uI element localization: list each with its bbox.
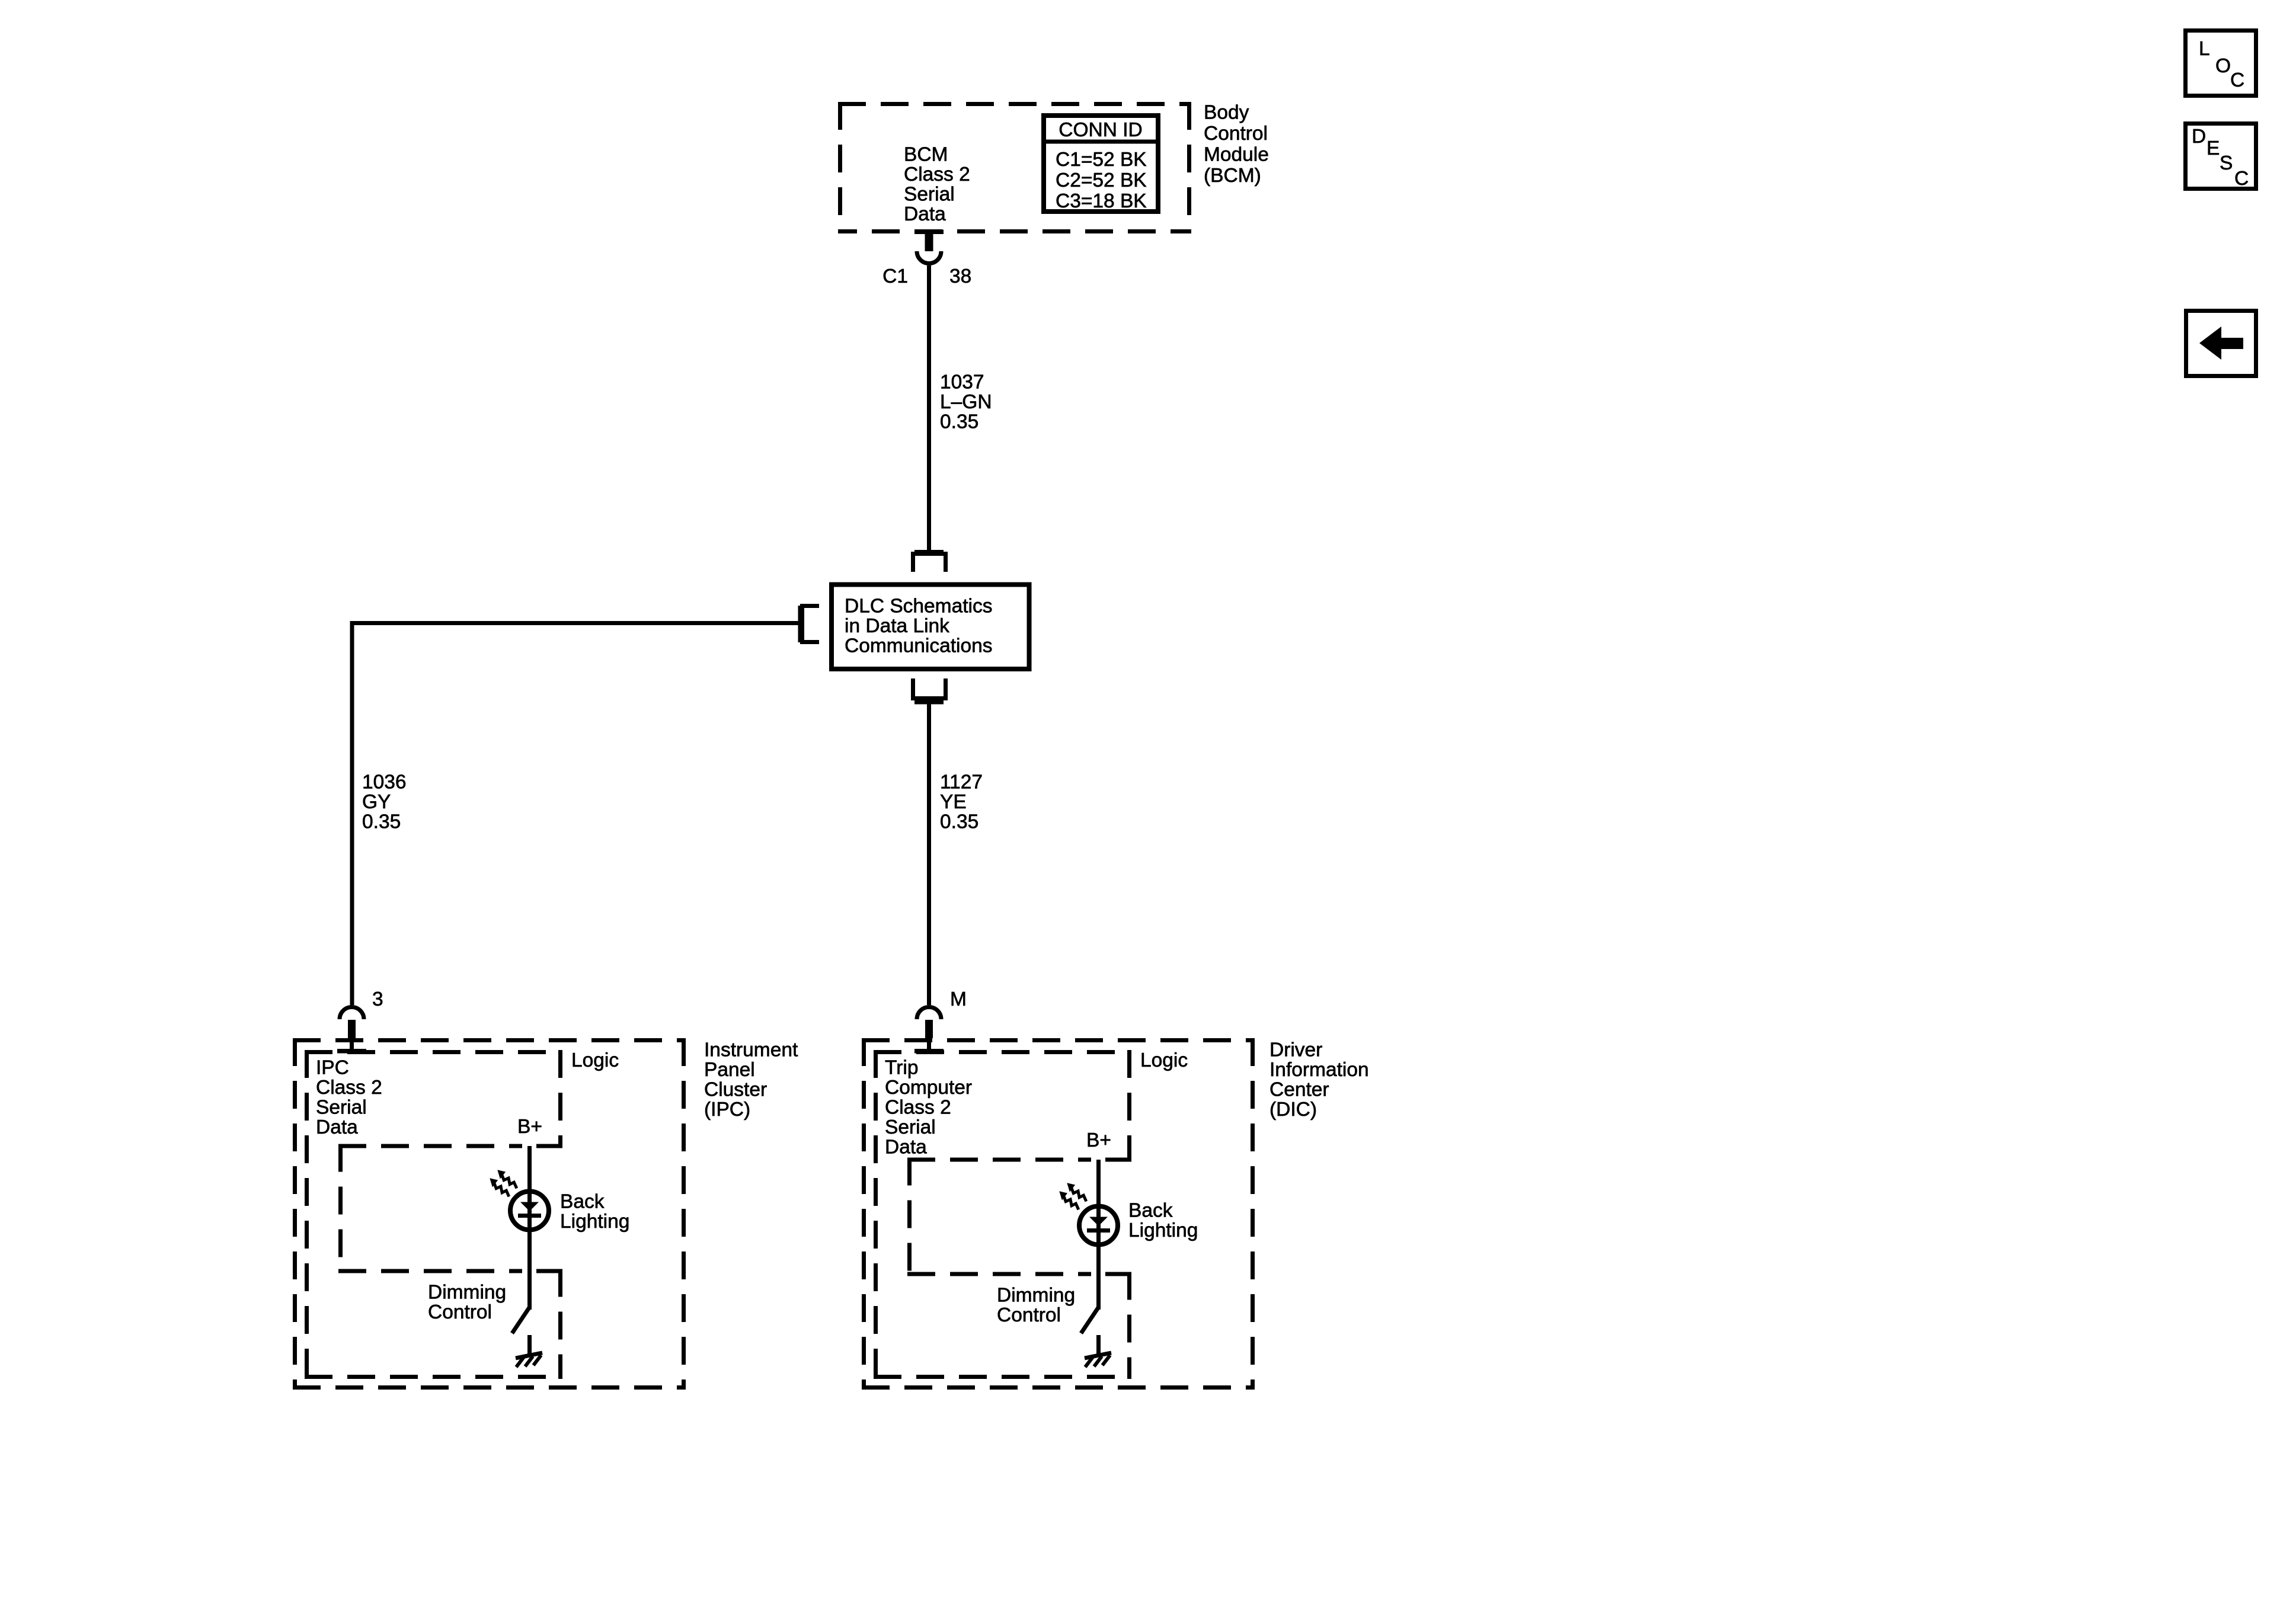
svg-text:Dimming: Dimming (428, 1281, 506, 1303)
wire label 1036 GY 0.35 (362, 771, 407, 833)
svg-text:Dimming: Dimming (997, 1284, 1075, 1306)
svg-text:Information: Information (1269, 1059, 1369, 1081)
back arrow icon box (2186, 311, 2256, 376)
svg-text:Cluster: Cluster (704, 1078, 767, 1100)
svg-text:Serial: Serial (885, 1116, 936, 1138)
svg-text:Data: Data (904, 203, 946, 225)
wire 1037 BCM to DLC (927, 265, 931, 552)
svg-text:Module: Module (1204, 143, 1269, 165)
svg-text:Communications: Communications (845, 635, 992, 657)
body control module BCM dashed box (838, 102, 1191, 233)
svg-text:Serial: Serial (316, 1096, 367, 1118)
svg-text:Logic: Logic (571, 1049, 619, 1071)
svg-text:Lighting: Lighting (1128, 1219, 1198, 1241)
svg-text:GY: GY (362, 791, 391, 813)
Dimming Control label IPC (428, 1281, 506, 1323)
svg-text:0.35: 0.35 (940, 811, 978, 833)
svg-text:(BCM): (BCM) (1204, 165, 1261, 187)
Body Control Module (BCM) label (1204, 101, 1269, 186)
DLC top off-page bracket (913, 550, 946, 572)
DLC left off-page bracket (798, 606, 820, 642)
svg-text:B+: B+ (1086, 1129, 1111, 1151)
svg-text:0.35: 0.35 (362, 811, 401, 833)
svg-text:Control: Control (1204, 123, 1268, 145)
svg-text:C3=18 BK: C3=18 BK (1056, 190, 1147, 212)
svg-text:D: D (2192, 126, 2206, 148)
IPC Class 2 Serial Data label (316, 1057, 382, 1138)
DIC inner logic dashed boundary (874, 1050, 1131, 1379)
svg-text:Control: Control (997, 1304, 1061, 1326)
svg-text:E: E (2207, 137, 2220, 159)
dimming switch DIC (1081, 1307, 1099, 1333)
svg-text:1037: 1037 (940, 371, 984, 393)
svg-text:DLC Schematics: DLC Schematics (845, 595, 992, 617)
svg-text:B+: B+ (517, 1116, 542, 1138)
svg-text:38: 38 (949, 265, 971, 287)
svg-text:C: C (2230, 69, 2244, 91)
Trip Computer Class 2 Serial Data label (885, 1057, 972, 1158)
svg-text:Instrument: Instrument (704, 1039, 798, 1061)
svg-text:Class 2: Class 2 (316, 1077, 382, 1099)
svg-text:C: C (2234, 168, 2249, 190)
wire label 1127 YE 0.35 (940, 771, 983, 833)
svg-text:Logic: Logic (1140, 1049, 1188, 1071)
svg-text:YE: YE (940, 791, 967, 813)
svg-text:L: L (2199, 38, 2210, 60)
ground DIC (1085, 1335, 1111, 1367)
svg-text:1036: 1036 (362, 771, 407, 793)
svg-text:O: O (2215, 55, 2231, 77)
svg-text:C1: C1 (882, 265, 908, 287)
svg-text:Serial: Serial (904, 183, 955, 205)
svg-text:1127: 1127 (940, 771, 983, 793)
svg-text:3: 3 (372, 988, 383, 1010)
svg-text:L–GN: L–GN (940, 391, 992, 413)
DLC bottom off-page bracket (913, 678, 946, 705)
instrument panel cluster IPC outer dashed box (293, 1038, 686, 1390)
LED light arrows DIC (1056, 1180, 1089, 1213)
svg-text:BCM: BCM (904, 143, 948, 165)
svg-text:Back: Back (560, 1190, 605, 1212)
svg-text:Center: Center (1269, 1078, 1329, 1100)
svg-text:Computer: Computer (885, 1077, 972, 1099)
wire label 1037 L-GN 0.35 (940, 371, 992, 433)
B+ wire DIC (1096, 1160, 1101, 1310)
Driver Information Center (DIC) label (1269, 1039, 1369, 1121)
wire from DLC left to IPC (352, 623, 798, 1006)
Back Lighting label IPC (560, 1190, 629, 1233)
svg-text:in Data Link: in Data Link (845, 615, 949, 637)
DESC icon box (2186, 124, 2256, 190)
back lighting LED DIC (1079, 1206, 1118, 1245)
IPC inner logic dashed boundary (305, 1050, 562, 1379)
LOC icon box (2186, 31, 2256, 96)
svg-text:M: M (950, 988, 967, 1010)
Instrument Panel Cluster (IPC) label (704, 1039, 798, 1121)
svg-text:Trip: Trip (885, 1057, 918, 1078)
DLC Schematics box (832, 585, 1029, 670)
CONN ID table (1041, 116, 1160, 212)
dimming switch IPC (512, 1307, 530, 1333)
wire 1127 DLC to DIC (927, 704, 931, 1005)
ground IPC (516, 1335, 542, 1367)
svg-text:C2=52 BK: C2=52 BK (1056, 169, 1147, 191)
driver information center DIC outer dashed box (862, 1038, 1255, 1390)
svg-text:C1=52 BK: C1=52 BK (1056, 149, 1147, 171)
connector M at DIC (914, 988, 967, 1054)
svg-text:Panel: Panel (704, 1059, 755, 1081)
connector C1 pin 38 at BCM (882, 230, 971, 288)
Back Lighting label DIC (1128, 1199, 1198, 1241)
svg-text:Control: Control (428, 1301, 492, 1323)
svg-text:(DIC): (DIC) (1269, 1099, 1317, 1121)
svg-text:Data: Data (885, 1136, 927, 1158)
BCM Class 2 Serial Data label (904, 143, 970, 225)
connector 3 at IPC (337, 988, 383, 1054)
svg-text:CONN ID: CONN ID (1059, 119, 1142, 141)
back lighting LED IPC (510, 1192, 549, 1230)
svg-text:0.35: 0.35 (940, 411, 978, 433)
svg-text:Class 2: Class 2 (885, 1096, 951, 1118)
svg-text:IPC: IPC (316, 1057, 349, 1078)
Dimming Control label DIC (997, 1284, 1075, 1326)
svg-text:Driver: Driver (1269, 1039, 1322, 1061)
svg-text:S: S (2220, 152, 2233, 174)
svg-text:Data: Data (316, 1116, 358, 1138)
B+ wire IPC (527, 1146, 532, 1310)
svg-text:Class 2: Class 2 (904, 164, 970, 185)
svg-text:Body: Body (1204, 101, 1249, 123)
svg-text:Back: Back (1128, 1199, 1173, 1221)
svg-text:Lighting: Lighting (560, 1211, 629, 1233)
svg-text:(IPC): (IPC) (704, 1099, 750, 1121)
LED light arrows IPC (487, 1167, 519, 1200)
